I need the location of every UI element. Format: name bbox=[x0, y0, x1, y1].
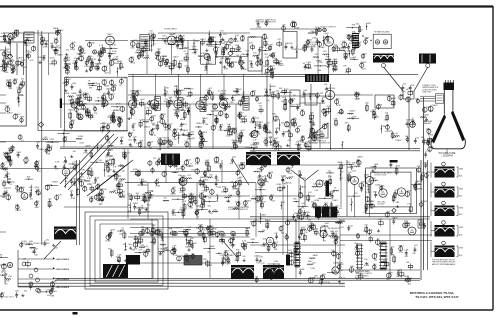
if transformer L4 bbox=[243, 96, 249, 110]
hv cage nested box 1 bbox=[85, 212, 168, 289]
audio row tube A4 bbox=[173, 231, 177, 235]
svg-text:2.2M: 2.2M bbox=[306, 62, 311, 64]
svg-text:470K: 470K bbox=[330, 192, 335, 194]
tuner shield box bbox=[0, 42, 26, 126]
svg-text:12AU7: 12AU7 bbox=[206, 264, 213, 267]
svg-text:470K: 470K bbox=[201, 201, 206, 203]
svg-text:FOR THE IMPROVED CIRCUIT: FOR THE IMPROVED CIRCUIT bbox=[432, 260, 455, 262]
svg-text:.0047: .0047 bbox=[190, 244, 196, 246]
svg-text:12AU7: 12AU7 bbox=[206, 62, 213, 65]
wire if row feed bbox=[128, 94, 250, 96]
svg-text:6AU8: 6AU8 bbox=[104, 85, 110, 88]
svg-text:3.3K: 3.3K bbox=[15, 205, 20, 207]
svg-text:6CB6: 6CB6 bbox=[364, 265, 370, 267]
video out small triode bbox=[323, 28, 327, 32]
svg-text:12AU7: 12AU7 bbox=[309, 93, 316, 96]
svg-text:4.7K: 4.7K bbox=[182, 201, 187, 203]
if transformer L1 bbox=[155, 96, 161, 110]
svg-text:1.5K: 1.5K bbox=[98, 52, 103, 54]
svg-text:4.7K: 4.7K bbox=[404, 250, 409, 252]
if transformer L2 bbox=[178, 98, 184, 110]
svg-text:12AU7: 12AU7 bbox=[173, 128, 180, 131]
svg-text:470K: 470K bbox=[287, 182, 292, 184]
svg-text:6AU8: 6AU8 bbox=[262, 195, 268, 198]
svg-text:6CB6: 6CB6 bbox=[214, 163, 220, 165]
svg-text:4.7K: 4.7K bbox=[271, 65, 276, 67]
width coil slug bbox=[326, 181, 330, 197]
svg-text:1.5K: 1.5K bbox=[78, 119, 83, 121]
svg-text:1MEG: 1MEG bbox=[253, 144, 259, 146]
svg-text:4.7K: 4.7K bbox=[56, 46, 61, 48]
svg-text:4.7K: 4.7K bbox=[242, 240, 247, 242]
svg-text:12AU7: 12AU7 bbox=[337, 220, 344, 223]
svg-text:1.5K: 1.5K bbox=[98, 160, 103, 162]
svg-text:1.5K: 1.5K bbox=[186, 114, 191, 116]
svg-text:1MEG: 1MEG bbox=[226, 58, 232, 60]
svg-text:1.5K: 1.5K bbox=[6, 174, 11, 176]
svg-text:470K: 470K bbox=[305, 212, 310, 214]
svg-text:4.7K: 4.7K bbox=[98, 145, 103, 147]
horiz osc tube V17 bbox=[351, 177, 359, 185]
svg-text:6AU8: 6AU8 bbox=[338, 161, 344, 164]
svg-text:.0047: .0047 bbox=[148, 190, 154, 192]
svg-text:6AU8: 6AU8 bbox=[397, 275, 403, 278]
wire hv riser bbox=[127, 149, 129, 219]
deflection yoke horiz A bbox=[231, 265, 254, 279]
svg-text:470K: 470K bbox=[339, 283, 344, 285]
svg-text:(TS-534 ONLY): (TS-534 ONLY) bbox=[2, 297, 14, 299]
antenna matching transformer bbox=[373, 54, 394, 63]
svg-text:.0047: .0047 bbox=[239, 113, 245, 115]
svg-text:6AU8: 6AU8 bbox=[85, 144, 91, 147]
svg-text:4.5 MC IF: 4.5 MC IF bbox=[130, 91, 139, 93]
resistor group det bbox=[256, 57, 259, 59]
svg-text:3.3K: 3.3K bbox=[55, 162, 60, 164]
resistor group cage interior bbox=[106, 235, 111, 240]
svg-text:12AU7: 12AU7 bbox=[200, 38, 207, 41]
svg-text:470K: 470K bbox=[102, 189, 107, 191]
svg-text:1.5K: 1.5K bbox=[288, 173, 293, 175]
svg-text:6AU8: 6AU8 bbox=[171, 193, 177, 196]
wire mid verticals bbox=[266, 75, 268, 147]
resistor group sound out bbox=[70, 193, 73, 195]
svg-text:12AU7: 12AU7 bbox=[144, 125, 151, 128]
svg-text:6AU8: 6AU8 bbox=[313, 254, 319, 257]
svg-text:3.3K: 3.3K bbox=[16, 87, 21, 89]
svg-text:6CB6: 6CB6 bbox=[235, 202, 241, 204]
wire centre pair bbox=[76, 160, 78, 245]
svg-text:4.7K: 4.7K bbox=[88, 100, 93, 102]
svg-text:4.7K: 4.7K bbox=[339, 270, 344, 272]
svg-text:12AU7: 12AU7 bbox=[173, 56, 180, 59]
svg-text:4.7K: 4.7K bbox=[112, 45, 117, 47]
wire vert V left bbox=[291, 170, 305, 181]
svg-text:& SOCKET CONNECTOR: & SOCKET CONNECTOR bbox=[228, 209, 249, 211]
wire video det link bbox=[300, 102, 325, 104]
border frame right edge bbox=[492, 6, 494, 310]
horiz output tube V22 6BQ6 bbox=[320, 230, 327, 237]
resistor group damper bbox=[307, 264, 313, 265]
svg-text:12AU7: 12AU7 bbox=[159, 143, 166, 146]
svg-text:12AU7: 12AU7 bbox=[415, 180, 422, 183]
svg-text:12AU7: 12AU7 bbox=[392, 217, 399, 220]
svg-text:+250V SOURCE: +250V SOURCE bbox=[56, 269, 70, 271]
svg-text:6AU8: 6AU8 bbox=[240, 162, 246, 165]
svg-text:2.2M: 2.2M bbox=[185, 255, 190, 257]
svg-text:.0047: .0047 bbox=[395, 166, 401, 168]
sound output transformer T204 bbox=[161, 154, 180, 166]
svg-text:1.5K: 1.5K bbox=[71, 179, 76, 181]
svg-text:12AU7: 12AU7 bbox=[24, 44, 31, 47]
svg-text:.0047: .0047 bbox=[423, 162, 429, 164]
svg-text:470K: 470K bbox=[385, 131, 390, 133]
wire damper riser bbox=[335, 240, 337, 266]
svg-text:470K: 470K bbox=[6, 36, 11, 38]
svg-text:6CB6: 6CB6 bbox=[299, 269, 305, 271]
svg-text:6AU8: 6AU8 bbox=[128, 132, 134, 135]
svg-text:2.2M: 2.2M bbox=[95, 178, 100, 180]
wire boost right bbox=[340, 269, 420, 271]
svg-text:12AU7: 12AU7 bbox=[431, 104, 438, 107]
svg-text:3.3K: 3.3K bbox=[58, 194, 63, 196]
svg-text:.0047: .0047 bbox=[324, 223, 330, 225]
svg-text:.0047: .0047 bbox=[186, 96, 192, 98]
svg-text:2.2M: 2.2M bbox=[313, 184, 318, 186]
svg-text:6CB6: 6CB6 bbox=[314, 200, 320, 202]
svg-text:4.7K: 4.7K bbox=[168, 146, 173, 148]
svg-text:2.2M: 2.2M bbox=[49, 289, 54, 291]
resistor group audio out bbox=[215, 233, 219, 237]
svg-text:470K: 470K bbox=[66, 60, 71, 62]
picture tube V1 21DEP4A bbox=[443, 90, 445, 114]
svg-text:470K: 470K bbox=[116, 104, 121, 106]
resistor group crt drive bbox=[391, 133, 394, 137]
svg-text:470K: 470K bbox=[145, 212, 150, 214]
wire crt grid chain bbox=[408, 99, 410, 150]
wire sync diagonal bbox=[222, 240, 237, 257]
wire audio row bottom bbox=[128, 236, 250, 238]
width coil box bbox=[418, 220, 424, 228]
svg-text:1MEG: 1MEG bbox=[133, 203, 139, 205]
svg-text:.0047: .0047 bbox=[256, 96, 262, 98]
rf amp tube V3 6BZ7 bbox=[106, 36, 115, 45]
svg-text:1.5K: 1.5K bbox=[120, 137, 125, 139]
svg-text:3.3K: 3.3K bbox=[52, 281, 57, 283]
svg-text:4.7K: 4.7K bbox=[144, 246, 149, 248]
svg-text:+135V SOURCE: +135V SOURCE bbox=[56, 279, 70, 281]
svg-text:4.7K: 4.7K bbox=[399, 252, 404, 254]
svg-text:6AU8: 6AU8 bbox=[117, 60, 123, 63]
svg-text:(4) 6BQ6GTB: (4) 6BQ6GTB bbox=[328, 228, 340, 230]
resistor group if strip bbox=[188, 134, 194, 135]
audio row tube A1 bbox=[139, 231, 143, 235]
svg-text:12AU7: 12AU7 bbox=[405, 222, 412, 225]
svg-text:2.2M: 2.2M bbox=[120, 67, 125, 69]
svg-text:6AU8: 6AU8 bbox=[290, 97, 296, 100]
svg-text:12AU7: 12AU7 bbox=[38, 148, 45, 151]
svg-text:6AU8: 6AU8 bbox=[391, 97, 397, 100]
svg-text:6AU8: 6AU8 bbox=[273, 241, 279, 244]
svg-text:.0047: .0047 bbox=[364, 38, 370, 40]
svg-text:.0047: .0047 bbox=[100, 123, 106, 125]
svg-text:6CB6: 6CB6 bbox=[63, 67, 69, 69]
yoke winding plug J3 bbox=[435, 206, 455, 217]
vert osc tube V16 bbox=[316, 180, 323, 187]
svg-text:2.2M: 2.2M bbox=[16, 152, 21, 154]
svg-text:1MEG: 1MEG bbox=[406, 119, 412, 121]
svg-text:6AU8: 6AU8 bbox=[53, 27, 59, 30]
svg-text:3.3K: 3.3K bbox=[173, 161, 178, 163]
svg-text:.0047: .0047 bbox=[324, 33, 330, 35]
svg-text:6AU8: 6AU8 bbox=[111, 84, 117, 87]
svg-text:.0047: .0047 bbox=[189, 202, 195, 204]
svg-text:2.2M: 2.2M bbox=[354, 44, 359, 46]
wire AGC bus mid bbox=[60, 146, 250, 148]
svg-text:470K: 470K bbox=[336, 105, 341, 107]
svg-text:2.2M: 2.2M bbox=[136, 143, 141, 145]
svg-text:1MEG: 1MEG bbox=[52, 182, 58, 184]
vertical sawtooth waveform bbox=[308, 123, 328, 138]
svg-text:4.7K: 4.7K bbox=[332, 51, 337, 53]
svg-text:12AU7: 12AU7 bbox=[260, 213, 267, 216]
wire horiz bus group bbox=[250, 216, 430, 218]
wire B+ bus upper pair bbox=[128, 73, 418, 75]
balun transformer bbox=[419, 54, 436, 64]
agc keying mark bbox=[60, 99, 62, 109]
svg-text:1MEG: 1MEG bbox=[221, 192, 227, 194]
svg-text:6AU8: 6AU8 bbox=[312, 31, 318, 34]
svg-text:6AU8: 6AU8 bbox=[212, 228, 218, 231]
svg-text:2.2M: 2.2M bbox=[268, 44, 273, 46]
svg-text:12AU7: 12AU7 bbox=[202, 117, 209, 120]
svg-text:1.5K: 1.5K bbox=[250, 67, 255, 69]
svg-text:1.5K: 1.5K bbox=[261, 246, 266, 248]
svg-text:.0047: .0047 bbox=[263, 73, 269, 75]
svg-text:6AU8: 6AU8 bbox=[337, 167, 343, 170]
fm trap tubes bbox=[375, 40, 379, 44]
svg-text:6AU8: 6AU8 bbox=[326, 194, 332, 197]
svg-text:6CB6: 6CB6 bbox=[428, 135, 434, 137]
svg-text:1MEG: 1MEG bbox=[202, 187, 208, 189]
svg-text:470K: 470K bbox=[34, 187, 39, 189]
svg-text:6CB6: 6CB6 bbox=[81, 53, 87, 55]
border frame top edge bbox=[0, 5, 493, 7]
svg-text:4.7K: 4.7K bbox=[325, 227, 330, 229]
svg-text:12AU7: 12AU7 bbox=[241, 53, 248, 56]
svg-text:4.7K: 4.7K bbox=[11, 65, 16, 67]
svg-text:3.3K: 3.3K bbox=[350, 266, 355, 268]
svg-text:6CB6: 6CB6 bbox=[294, 28, 300, 30]
svg-text:4.7K: 4.7K bbox=[21, 60, 26, 62]
svg-text:2.2M: 2.2M bbox=[318, 93, 323, 95]
svg-text:470K: 470K bbox=[192, 46, 197, 48]
audio out tube V15 6K6 bbox=[258, 179, 264, 185]
svg-text:↕ 21DEP4A: ↕ 21DEP4A bbox=[441, 155, 453, 158]
svg-text:12AU7: 12AU7 bbox=[226, 128, 233, 131]
svg-text:4.7K: 4.7K bbox=[334, 118, 339, 120]
svg-text:2.2M: 2.2M bbox=[167, 104, 172, 106]
wire yoke drop bbox=[402, 91, 404, 99]
svg-text:1.5K: 1.5K bbox=[191, 170, 196, 172]
yoke jumper box bbox=[375, 95, 394, 108]
svg-text:3.3K: 3.3K bbox=[184, 141, 189, 143]
svg-text:12AU7: 12AU7 bbox=[254, 255, 261, 258]
interstage transformer T205 bbox=[246, 152, 271, 165]
svg-text:6CB6: 6CB6 bbox=[198, 224, 204, 226]
svg-text:GRN: GRN bbox=[459, 208, 464, 210]
svg-text:1MEG: 1MEG bbox=[417, 188, 423, 190]
svg-text:4.7K: 4.7K bbox=[349, 118, 354, 120]
svg-text:470K: 470K bbox=[133, 169, 138, 171]
power supply outer box bbox=[366, 168, 417, 214]
svg-text:.0047: .0047 bbox=[392, 137, 398, 139]
svg-text:470K: 470K bbox=[295, 253, 300, 255]
svg-text:1.5K: 1.5K bbox=[298, 49, 303, 51]
svg-text:2.2M: 2.2M bbox=[274, 261, 279, 263]
ratio det tube V5 bbox=[204, 54, 210, 60]
svg-text:12AU7: 12AU7 bbox=[349, 109, 356, 112]
svg-text:4.5 MC IF: 4.5 MC IF bbox=[218, 91, 227, 93]
wire vert V right bbox=[305, 170, 318, 181]
svg-text:6AU8: 6AU8 bbox=[107, 163, 113, 166]
svg-text:.0047: .0047 bbox=[361, 69, 367, 71]
svg-text:12AU7: 12AU7 bbox=[188, 193, 195, 196]
svg-text:4.7K: 4.7K bbox=[240, 130, 245, 132]
svg-text:1.5K: 1.5K bbox=[89, 197, 94, 199]
gas regulator tube OB2 bbox=[266, 237, 274, 245]
sound IF box bbox=[65, 77, 127, 131]
svg-text:470K: 470K bbox=[43, 47, 48, 49]
svg-text:2.2M: 2.2M bbox=[312, 38, 317, 40]
pilot lamp bbox=[419, 222, 423, 226]
svg-text:12AU7: 12AU7 bbox=[15, 209, 22, 212]
wire supply diagonal bbox=[44, 241, 61, 259]
svg-text:12AU7: 12AU7 bbox=[360, 61, 367, 64]
svg-text:3.3K: 3.3K bbox=[265, 57, 270, 59]
horiz afc tube V18 bbox=[366, 177, 374, 185]
svg-text:6AU8: 6AU8 bbox=[270, 85, 276, 88]
svg-text:4.7K: 4.7K bbox=[152, 135, 157, 137]
wire vert row link bbox=[256, 195, 315, 197]
svg-text:12AU7: 12AU7 bbox=[68, 108, 75, 111]
pt socket strip bbox=[295, 242, 300, 267]
svg-text:470K: 470K bbox=[234, 41, 239, 43]
svg-text:2.2M: 2.2M bbox=[120, 192, 125, 194]
svg-text:470K: 470K bbox=[257, 27, 262, 29]
wire if verticals bbox=[144, 104, 146, 149]
svg-text:4.7K: 4.7K bbox=[297, 247, 302, 249]
video det tube V12 12BY7A bbox=[325, 90, 334, 99]
wire supply branch 1 bbox=[18, 258, 54, 260]
wire top feed bbox=[158, 32, 250, 34]
audio row tube A5 bbox=[184, 231, 188, 235]
svg-text:4.7K: 4.7K bbox=[195, 41, 200, 43]
mixer tube V2 bbox=[8, 34, 14, 40]
svg-text:BOOST B+: BOOST B+ bbox=[321, 282, 331, 284]
svg-text:4.7K: 4.7K bbox=[3, 264, 8, 266]
svg-text:1.5K: 1.5K bbox=[365, 186, 370, 188]
svg-text:.0047: .0047 bbox=[140, 99, 146, 101]
ratio detector transformer T206 bbox=[277, 152, 300, 165]
svg-text:ALTERNATE SPEED OPTIONS: ALTERNATE SPEED OPTIONS bbox=[21, 242, 50, 245]
svg-text:GRN: GRN bbox=[459, 248, 464, 250]
test point TP2 bbox=[38, 122, 43, 127]
svg-text:2.2M: 2.2M bbox=[310, 268, 315, 270]
svg-text:4.7K: 4.7K bbox=[426, 151, 431, 153]
svg-text:3.3K: 3.3K bbox=[96, 90, 101, 92]
svg-text:6CB6: 6CB6 bbox=[18, 95, 24, 97]
svg-text:1.5K: 1.5K bbox=[308, 192, 313, 194]
svg-text:.0047: .0047 bbox=[96, 64, 102, 66]
svg-text:6AU8: 6AU8 bbox=[262, 165, 268, 168]
svg-text:2.2M: 2.2M bbox=[166, 44, 171, 46]
svg-text:470K: 470K bbox=[71, 198, 76, 200]
svg-text:470K: 470K bbox=[49, 58, 54, 60]
resistor group sync bbox=[240, 164, 245, 169]
svg-text:12AU7: 12AU7 bbox=[300, 186, 307, 189]
svg-text:3.3K: 3.3K bbox=[72, 42, 77, 44]
damper tube V23 bbox=[332, 267, 339, 274]
svg-text:4.7K: 4.7K bbox=[429, 147, 434, 149]
svg-text:1.5K: 1.5K bbox=[117, 255, 122, 257]
wire if grid drops bbox=[132, 74, 134, 100]
svg-text:12BY7A: 12BY7A bbox=[327, 87, 335, 90]
hv cage nested box 4 bbox=[100, 224, 153, 279]
svg-text:6AU8: 6AU8 bbox=[220, 98, 226, 101]
video output peaking transformer bbox=[305, 75, 329, 83]
svg-text:1.5K: 1.5K bbox=[314, 190, 319, 192]
svg-text:.0047: .0047 bbox=[79, 142, 85, 144]
wire sync row link bbox=[128, 195, 250, 197]
wire right bus c bbox=[427, 160, 429, 270]
phono jack bbox=[93, 50, 97, 54]
svg-text:3.3K: 3.3K bbox=[122, 77, 127, 79]
svg-text:4.7K: 4.7K bbox=[77, 98, 82, 100]
audio det box bbox=[248, 37, 262, 71]
wire video feed bbox=[250, 28, 320, 30]
svg-text:3.3K: 3.3K bbox=[224, 68, 229, 70]
svg-text:1MEG: 1MEG bbox=[306, 68, 312, 70]
svg-text:1.5K: 1.5K bbox=[114, 57, 119, 59]
svg-text:12AU7: 12AU7 bbox=[156, 229, 163, 232]
video tuner box bbox=[283, 32, 297, 59]
wire boost bundle 1 bbox=[55, 277, 420, 279]
svg-text:3.3K: 3.3K bbox=[339, 110, 344, 112]
wire vertical pair left bbox=[37, 30, 39, 131]
svg-text:6AU8: 6AU8 bbox=[245, 227, 251, 230]
wire audio row link bbox=[130, 233, 250, 235]
tuner connector comb bbox=[352, 33, 359, 48]
svg-text:470K: 470K bbox=[289, 176, 294, 178]
svg-text:4.7K: 4.7K bbox=[99, 45, 104, 47]
svg-text:470K: 470K bbox=[298, 193, 303, 195]
svg-text:1MEG: 1MEG bbox=[245, 201, 251, 203]
svg-text:3.3K: 3.3K bbox=[87, 178, 92, 180]
if amp tube V8 6CB6 bbox=[150, 100, 158, 108]
svg-text:6AU8: 6AU8 bbox=[407, 277, 413, 280]
svg-text:6CB6: 6CB6 bbox=[28, 283, 34, 285]
test point TP3 bbox=[228, 51, 233, 56]
svg-text:470K: 470K bbox=[240, 41, 245, 43]
svg-text:2.2M: 2.2M bbox=[220, 255, 225, 257]
svg-text:117V 60 CYCLE: 117V 60 CYCLE bbox=[374, 175, 387, 177]
svg-text:1MEG: 1MEG bbox=[398, 245, 404, 247]
wire right bus a bbox=[420, 160, 422, 280]
svg-text:3.3K: 3.3K bbox=[3, 57, 8, 59]
svg-text:6CB6: 6CB6 bbox=[155, 186, 161, 188]
wire supply branch 2 bbox=[18, 268, 54, 270]
rectifier tube V19 5U4G bbox=[379, 189, 387, 197]
